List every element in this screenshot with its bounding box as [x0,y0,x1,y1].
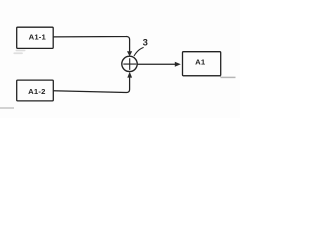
block A1-1 [17,27,54,48]
arrowhead into summer bottom [127,72,132,78]
faint artifact line bottom-left [0,107,14,109]
faint smudge left lower streak [13,52,23,54]
block A1 bottom edge emphasis [183,75,221,77]
svg-text:A1: A1 [195,58,206,67]
arrowhead into summer top [127,51,132,56]
plus sign in summer [123,58,136,70]
block A1 [183,52,221,76]
leader line from 3 to summer [134,47,144,56]
faint artifact line right of A1 box [221,76,236,78]
svg-text:A1-2: A1-2 [28,87,45,96]
faint smudge left upper streak [16,50,26,52]
svg-text:A1-1: A1-1 [29,33,47,42]
wire A1-2 to summer [53,77,129,92]
arrowhead into A1 [175,62,181,67]
wire A1-1 to summer [53,36,129,51]
block A1-2 [17,80,54,101]
svg-text:3: 3 [143,36,148,47]
wire summer to A1 [137,63,175,65]
summing junction 3 [122,56,137,71]
